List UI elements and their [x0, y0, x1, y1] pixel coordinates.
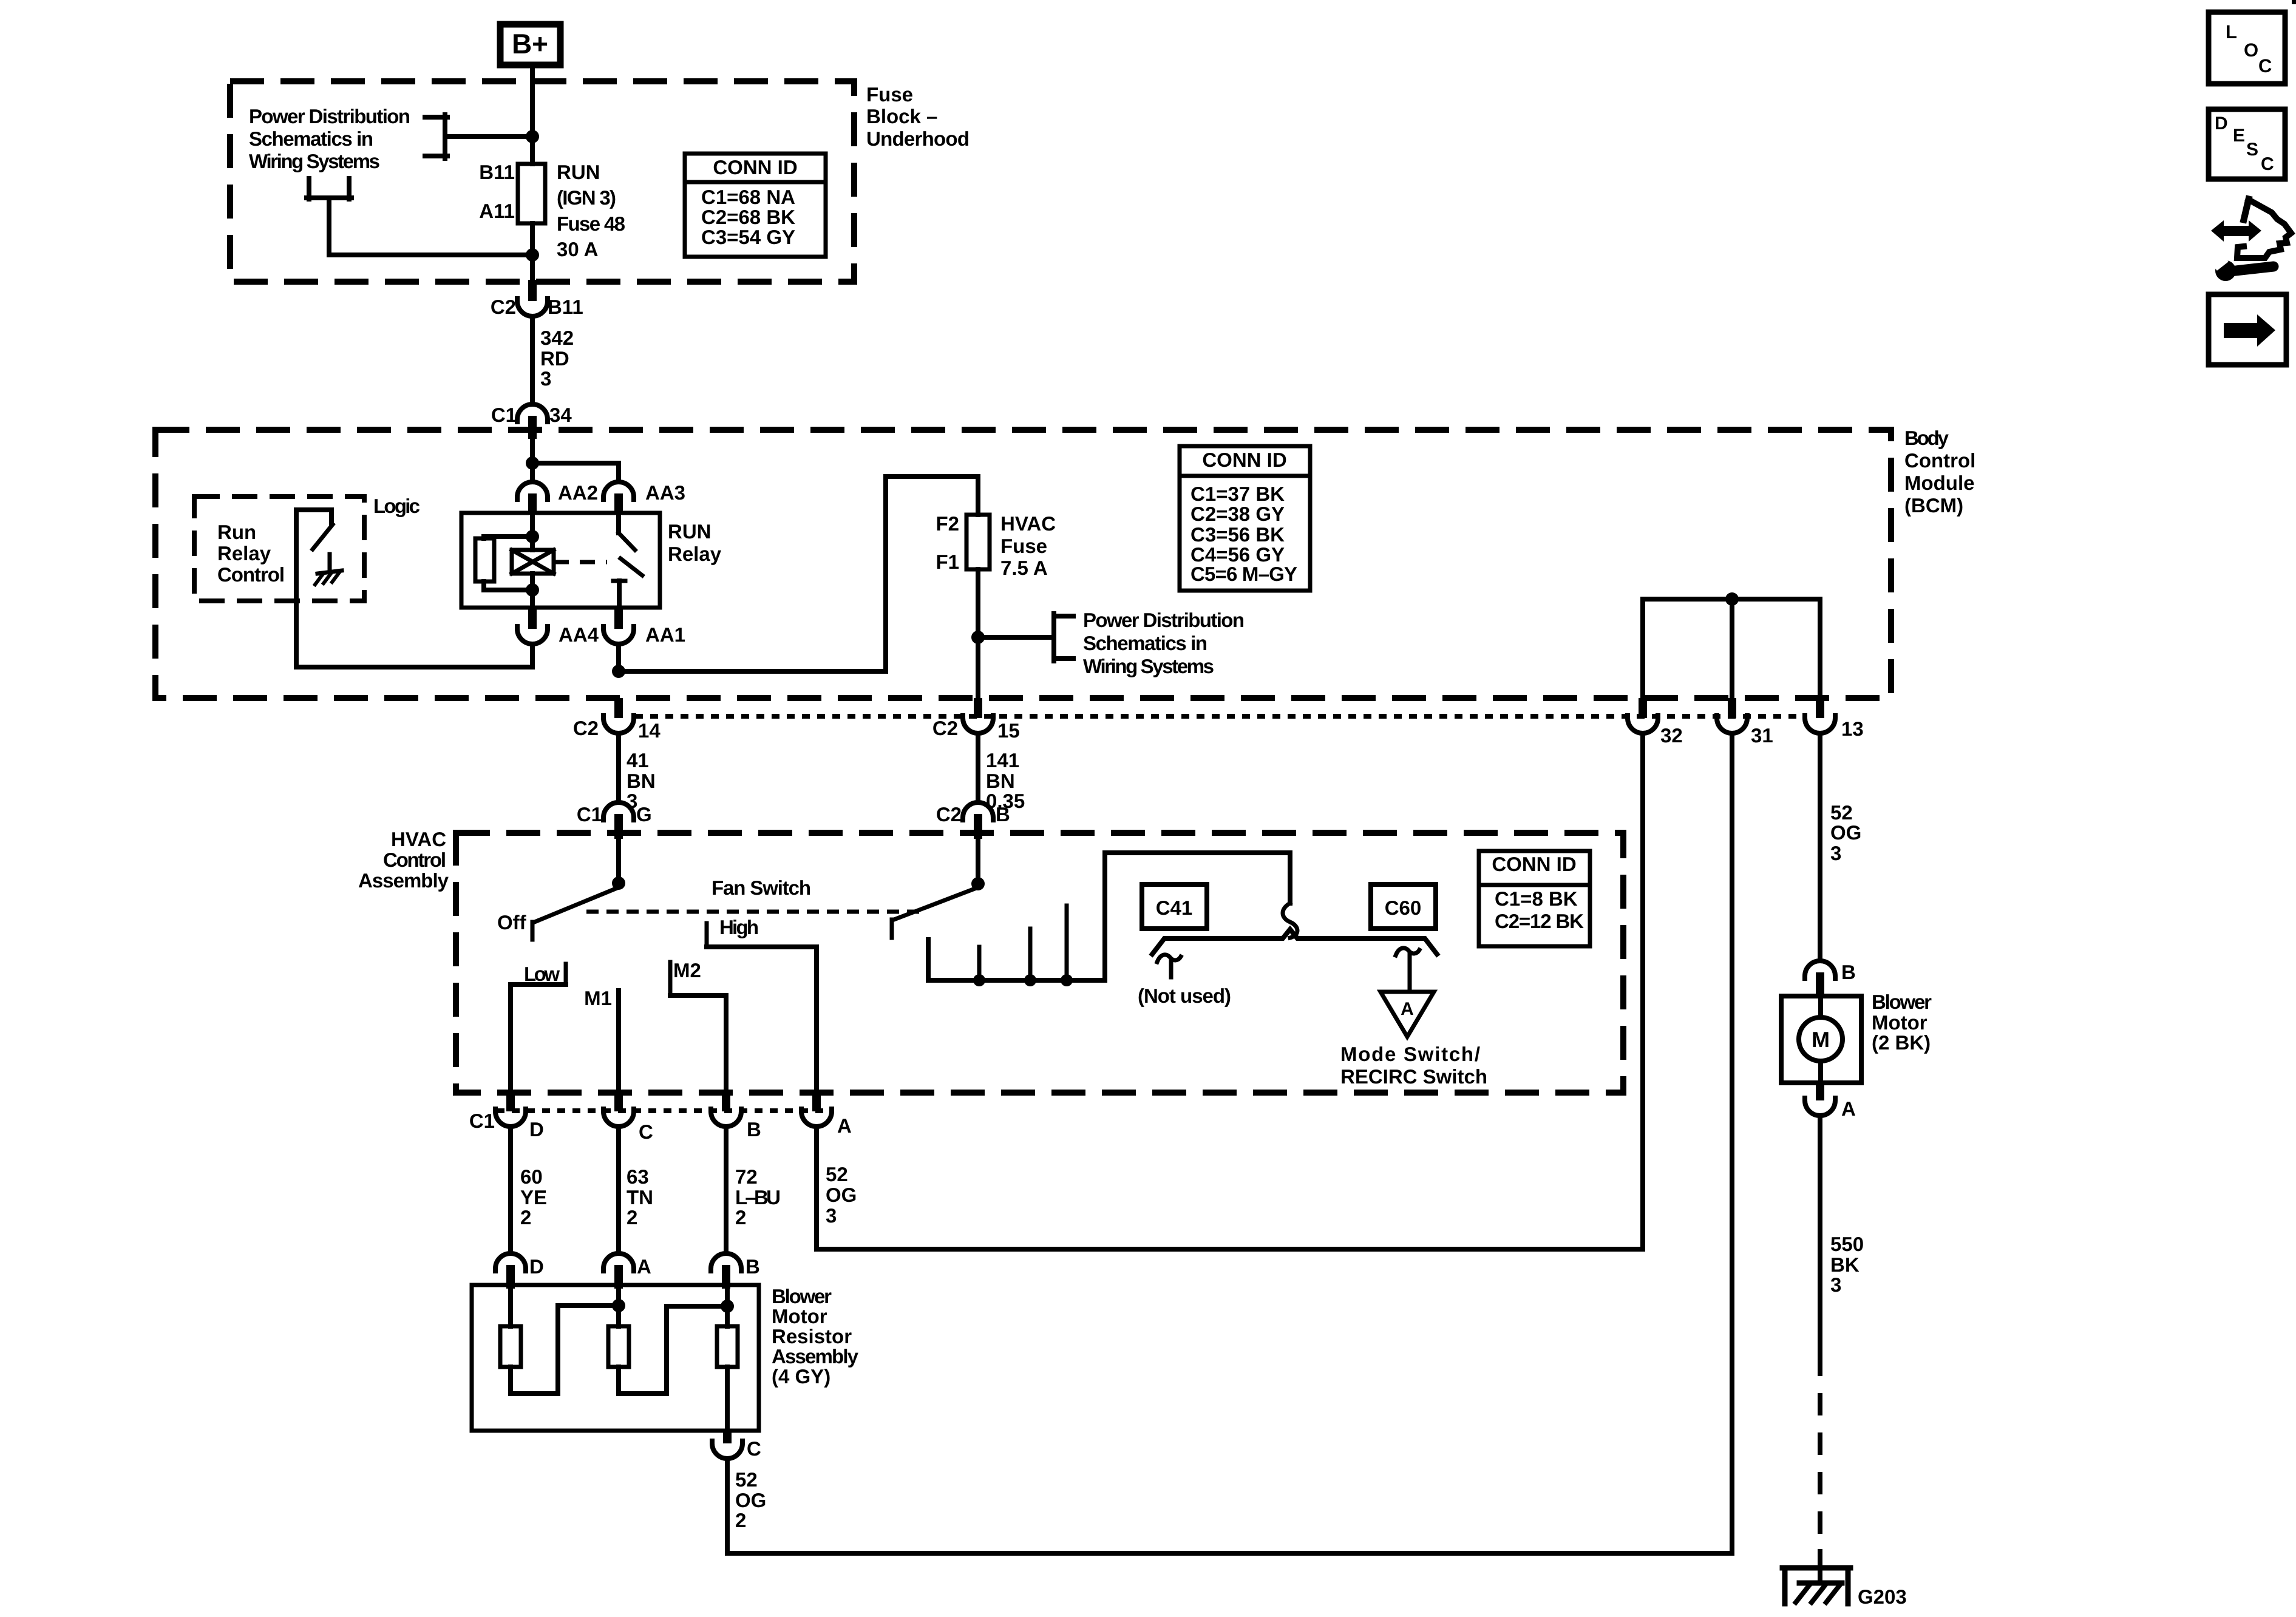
- chassis ground in logic: [315, 571, 342, 585]
- svg-text:Run: Run: [217, 521, 256, 543]
- svg-text:30 A: 30 A: [557, 238, 598, 260]
- logic ground stub: [328, 554, 332, 571]
- wire fan switch pole 2: [976, 839, 980, 884]
- blower motor resistor assembly box: [472, 1285, 759, 1431]
- svg-text:Control: Control: [1904, 449, 1975, 472]
- svg-text:(IGN 3): (IGN 3): [557, 186, 616, 209]
- wire B to resistor 3: [725, 1289, 730, 1326]
- logic switch blade: [313, 524, 333, 549]
- svg-text:342: 342: [540, 327, 574, 349]
- svg-text:Control: Control: [217, 563, 285, 586]
- connector AA2: [517, 481, 598, 514]
- svg-text:Power Distribution: Power Distribution: [1083, 609, 1245, 631]
- svg-text:Wiring Systems: Wiring Systems: [249, 150, 380, 172]
- node junction relay coil bottom: [526, 583, 539, 597]
- svg-text:14: 14: [638, 719, 661, 742]
- node junction resistor B: [721, 1300, 734, 1313]
- svg-text:C3=54 GY: C3=54 GY: [701, 226, 795, 248]
- icon box DESC: [2209, 109, 2285, 179]
- label Fuse Block - Underhood: [866, 83, 970, 150]
- wire 41 BN 3: [619, 733, 656, 812]
- svg-text:OG: OG: [826, 1184, 857, 1206]
- svg-text:C41: C41: [1156, 897, 1193, 919]
- svg-text:Module: Module: [1904, 472, 1974, 494]
- connector AA1: [603, 608, 685, 646]
- svg-text:M1: M1: [584, 987, 612, 1009]
- svg-text:Off: Off: [497, 911, 527, 934]
- svg-text:Blower: Blower: [772, 1285, 832, 1307]
- wire D to resistor 1: [508, 1289, 513, 1326]
- ground G203: [1782, 1568, 1907, 1608]
- HVAC control assembly dashed box: [456, 833, 1623, 1093]
- connector pin A (blower motor): [1805, 1083, 1856, 1120]
- svg-text:C60: C60: [1385, 897, 1422, 919]
- wire to power distribution reference: [978, 635, 1054, 640]
- svg-text:Blower: Blower: [1872, 991, 1932, 1013]
- svg-text:15: 15: [997, 719, 1020, 742]
- svg-text:YE: YE: [520, 1186, 547, 1209]
- wire fan switch pole 1: [616, 839, 621, 883]
- connector C1 pin 34: [491, 404, 572, 439]
- relay coil element: [512, 550, 554, 574]
- wire AA1 junction to fuse F2: [619, 476, 978, 671]
- svg-text:60: 60: [520, 1165, 543, 1188]
- connector pin C (resistor out): [712, 1431, 761, 1460]
- resistor R1: [500, 1326, 521, 1367]
- node junction relay coil top: [526, 530, 539, 543]
- fan switch mechanical linkage dotted: [586, 910, 922, 914]
- label RUN Relay: [668, 520, 722, 565]
- label Mode Switch RECIRC Switch: [1340, 1043, 1487, 1088]
- label F1: [936, 551, 959, 573]
- svg-text:32: 32: [1660, 724, 1683, 747]
- svg-text:41: 41: [627, 749, 649, 771]
- svg-text:C3=56 BK: C3=56 BK: [1190, 523, 1285, 546]
- svg-text:Fuse: Fuse: [1000, 535, 1047, 557]
- wire branch to AA3: [532, 463, 619, 482]
- wire 550 BK 3: [1820, 1116, 1864, 1354]
- fan switch pole 2 contact: [890, 920, 894, 938]
- svg-text:B: B: [996, 803, 1010, 825]
- svg-text:(2 BK): (2 BK): [1872, 1031, 1931, 1054]
- svg-text:RUN: RUN: [668, 520, 712, 543]
- svg-text:O: O: [2244, 39, 2258, 61]
- mode switch triangle A: [1381, 992, 1434, 1037]
- svg-text:C2: C2: [491, 296, 516, 318]
- wire fuse F1 down: [976, 569, 980, 700]
- svg-text:Fuse 48: Fuse 48: [557, 212, 625, 235]
- svg-text:D: D: [529, 1118, 544, 1141]
- svg-text:C1: C1: [469, 1110, 495, 1132]
- relay switch output terminal: [613, 581, 625, 608]
- svg-text:3: 3: [1830, 842, 1841, 864]
- connector pin A (resistor): [603, 1253, 651, 1289]
- svg-text:C2: C2: [936, 803, 962, 825]
- svg-text:M2: M2: [673, 959, 701, 981]
- svg-text:C2=12 BK: C2=12 BK: [1495, 910, 1584, 932]
- node junction fan switch pole 2: [971, 877, 985, 890]
- wire M2 to pin B: [724, 995, 729, 1093]
- label HVAC Control Assembly: [358, 828, 449, 892]
- svg-text:Wiring Systems: Wiring Systems: [1083, 655, 1214, 677]
- svg-text:2: 2: [520, 1206, 531, 1229]
- label HVAC Fuse 7.5 A: [1000, 512, 1056, 579]
- node junction comb 1: [973, 974, 985, 986]
- logic switch fixed contact: [296, 510, 331, 524]
- svg-text:2: 2: [735, 1206, 746, 1229]
- svg-text:TN: TN: [627, 1186, 653, 1209]
- svg-text:A: A: [1841, 1097, 1856, 1120]
- label RUN (IGN 3) Fuse 48 30 A: [557, 161, 625, 260]
- svg-text:A: A: [637, 1255, 651, 1278]
- svg-text:AA3: AA3: [645, 481, 685, 504]
- svg-text:3: 3: [826, 1204, 837, 1227]
- svg-text:D: D: [529, 1255, 544, 1278]
- resistor R2: [608, 1326, 629, 1367]
- svg-text:31: 31: [1751, 724, 1773, 747]
- svg-text:G: G: [636, 803, 652, 825]
- fan switch M1 contact: [584, 987, 619, 1093]
- svg-text:Assembly: Assembly: [772, 1345, 859, 1368]
- svg-text:Assembly: Assembly: [358, 869, 449, 892]
- relay switch blade: [620, 558, 642, 575]
- wire B+ down into fuse block: [530, 68, 535, 164]
- svg-text:RECIRC Switch: RECIRC Switch: [1340, 1065, 1487, 1088]
- fuse 48 RUN (IGN 3) 30 A: [518, 164, 545, 223]
- svg-text:Power Distribution: Power Distribution: [249, 105, 410, 127]
- connector pin B (HVAC): [711, 1093, 761, 1141]
- svg-text:7.5 A: 7.5 A: [1000, 557, 1048, 579]
- connector pin 31: [1717, 698, 1773, 747]
- svg-text:Schematics in: Schematics in: [1083, 632, 1207, 654]
- label Power Distribution Schematics in Wiring Systems (BCM): [1083, 609, 1245, 677]
- label Power Distribution Schematics in Wiring Systems (fuse block): [249, 105, 410, 172]
- svg-text:Body: Body: [1904, 427, 1949, 449]
- svg-text:13: 13: [1841, 717, 1864, 740]
- svg-text:(Not used): (Not used): [1138, 985, 1231, 1007]
- svg-text:B11: B11: [479, 161, 515, 183]
- svg-text:C: C: [2261, 154, 2274, 174]
- svg-text:C1: C1: [491, 404, 517, 426]
- svg-text:Resistor: Resistor: [772, 1325, 852, 1347]
- svg-text:63: 63: [627, 1165, 649, 1188]
- svg-text:C: C: [747, 1437, 761, 1460]
- relay actuator dashed link: [554, 560, 607, 564]
- fan switch High contact: [707, 916, 817, 947]
- wire 60 YE 2: [511, 1127, 547, 1253]
- in-line connector bus line: [1152, 929, 1437, 954]
- svg-text:52: 52: [1830, 801, 1853, 824]
- svg-text:AA2: AA2: [558, 481, 598, 504]
- connector pin D (HVAC): [495, 1093, 544, 1141]
- connector C1 label: [469, 1110, 495, 1132]
- svg-text:B: B: [746, 1255, 760, 1278]
- svg-text:B: B: [1841, 961, 1856, 983]
- fuse block dashed box: [230, 81, 854, 282]
- svg-text:S: S: [2246, 140, 2258, 160]
- svg-text:D: D: [2215, 114, 2228, 134]
- label Logic: [373, 495, 420, 517]
- fan switch blade pole 1: [533, 887, 619, 923]
- svg-text:C5=6 M–GY: C5=6 M–GY: [1190, 563, 1297, 585]
- in-line harness break squiggle: [1283, 903, 1297, 938]
- wire 52 OG 2: [727, 733, 1732, 1553]
- svg-text:BN: BN: [986, 770, 1015, 792]
- svg-text:(4 GY): (4 GY): [772, 1365, 830, 1388]
- wire 63 TN 2: [619, 1127, 653, 1253]
- wire resistor 3 to output: [725, 1367, 730, 1431]
- relay coil wire: [530, 513, 535, 608]
- svg-text:Fuse: Fuse: [866, 83, 913, 106]
- fan switch blade pole 2: [892, 887, 978, 920]
- label B11 pin: [479, 161, 515, 183]
- icon box arrow right: [2209, 294, 2286, 365]
- svg-text:34: 34: [549, 404, 572, 426]
- wire 52 OG 3 from pin 13: [1820, 733, 1861, 961]
- connector pin 32: [1628, 698, 1683, 747]
- svg-text:C: C: [2258, 55, 2272, 76]
- not used terminal squiggle: [1157, 955, 1181, 977]
- svg-text:2: 2: [627, 1206, 637, 1229]
- node junction on B+ feed (upper): [526, 130, 539, 143]
- connector C41 box: [1142, 884, 1207, 929]
- svg-text:A11: A11: [479, 200, 515, 222]
- svg-text:Block –: Block –: [866, 105, 937, 127]
- svg-text:C1: C1: [577, 803, 602, 825]
- svg-text:C1=37 BK: C1=37 BK: [1190, 483, 1285, 505]
- svg-text:C2: C2: [932, 717, 958, 739]
- wire resistor 1 jog: [511, 1306, 619, 1394]
- svg-text:Motor: Motor: [1872, 1011, 1927, 1034]
- svg-text:2: 2: [735, 1509, 746, 1531]
- svg-text:AA4: AA4: [559, 623, 599, 646]
- node junction resistor A: [612, 1299, 625, 1312]
- fan switch Off contact: [497, 911, 532, 940]
- svg-text:3: 3: [1830, 1273, 1841, 1296]
- svg-text:A: A: [837, 1114, 852, 1137]
- svg-text:BN: BN: [627, 770, 656, 792]
- wire 141 BN 0.35: [978, 733, 1025, 812]
- label (Not used): [1138, 985, 1231, 1007]
- svg-text:B: B: [747, 1118, 761, 1141]
- icon vehicle direction with wrench: [2211, 199, 2291, 281]
- page edge mark: [2292, 0, 2296, 4]
- Body Control Module dashed box: [155, 430, 1891, 698]
- svg-text:Underhood: Underhood: [866, 127, 970, 150]
- CONN ID table (BCM): [1180, 446, 1310, 591]
- svg-text:G203: G203: [1858, 1585, 1907, 1608]
- node junction comb 3: [1061, 974, 1073, 986]
- svg-text:C1=8 BK: C1=8 BK: [1495, 887, 1578, 910]
- wire 72 L-BU 2: [726, 1127, 781, 1253]
- svg-text:Logic: Logic: [373, 495, 420, 517]
- svg-text:B+: B+: [512, 28, 548, 59]
- svg-text:F2: F2: [936, 512, 959, 535]
- svg-text:L: L: [2226, 21, 2237, 42]
- wire 52 OG 3 (fan high): [817, 733, 1643, 1249]
- svg-text:RUN: RUN: [557, 161, 600, 183]
- connector pin 13: [1805, 698, 1864, 740]
- battery positive junction B+: [500, 24, 560, 65]
- connector row dotted line (BCM C2): [635, 714, 1804, 719]
- svg-text:High: High: [719, 916, 759, 938]
- CONN ID table (HVAC): [1479, 851, 1590, 946]
- node junction below fuse A11: [526, 248, 539, 262]
- svg-text:Motor: Motor: [772, 1305, 827, 1327]
- svg-text:C2: C2: [573, 717, 599, 739]
- svg-text:OG: OG: [735, 1489, 766, 1511]
- connector pin B (blower motor): [1805, 961, 1856, 996]
- svg-text:Low: Low: [524, 963, 560, 985]
- svg-text:AA1: AA1: [645, 623, 685, 646]
- svg-text:3: 3: [540, 367, 551, 390]
- wire AA1 to HVAC fuse: [616, 644, 621, 671]
- connector C2 pin B11: [491, 280, 583, 318]
- label Body Control Module (BCM): [1904, 427, 1975, 517]
- svg-text:HVAC: HVAC: [1000, 512, 1056, 535]
- svg-text:Fan Switch: Fan Switch: [712, 876, 811, 899]
- connector C2 pin 14: [573, 698, 661, 742]
- blower motor M: [1781, 996, 1861, 1083]
- svg-text:M: M: [1812, 1027, 1830, 1052]
- connector pin C (HVAC): [603, 1093, 653, 1143]
- resistor R3: [717, 1326, 738, 1367]
- fan switch M2 contact: [670, 959, 726, 995]
- svg-text:HVAC: HVAC: [391, 828, 446, 850]
- wire into BCM to relay: [530, 439, 535, 482]
- wire High to pin A: [814, 947, 819, 1093]
- logic dashed box: [194, 497, 364, 601]
- node junction AA1 output: [612, 665, 625, 678]
- svg-text:Mode Switch/: Mode Switch/: [1340, 1043, 1480, 1065]
- svg-text:Relay: Relay: [217, 542, 271, 564]
- svg-text:52: 52: [826, 1163, 848, 1185]
- svg-text:C1=68 NA: C1=68 NA: [701, 186, 795, 208]
- off-page reference bracket (BCM): [1054, 614, 1073, 661]
- icon box LOC: [2209, 12, 2285, 84]
- connector C60 box: [1371, 884, 1436, 929]
- wire resistor 2 jog: [619, 1306, 727, 1394]
- svg-text:(BCM): (BCM): [1904, 494, 1963, 517]
- wire fuse to box edge: [530, 223, 535, 282]
- svg-text:Control: Control: [383, 849, 446, 871]
- fan switch Low contact: [511, 963, 566, 985]
- CONN ID table (fuse block): [685, 154, 826, 257]
- mode switch terminal squiggle: [1396, 948, 1419, 990]
- relay switch fixed contact: [619, 513, 635, 550]
- svg-text:CONN ID: CONN ID: [1492, 853, 1576, 875]
- svg-text:L–BU: L–BU: [735, 1186, 781, 1209]
- node junction feeding AA3: [526, 456, 539, 470]
- svg-text:550: 550: [1830, 1233, 1864, 1255]
- label Blower Motor (2 BK): [1872, 991, 1932, 1054]
- label Fan Switch: [712, 876, 811, 899]
- svg-text:F1: F1: [936, 551, 959, 573]
- connector AA3: [603, 481, 685, 514]
- svg-text:A: A: [1401, 999, 1414, 1019]
- connector C1 pin G: [577, 802, 652, 839]
- svg-text:RD: RD: [540, 347, 569, 370]
- label Blower Motor Resistor Assembly (4 GY): [772, 1285, 859, 1388]
- svg-text:C: C: [639, 1120, 653, 1143]
- svg-text:OG: OG: [1830, 821, 1861, 844]
- svg-text:52: 52: [735, 1468, 758, 1491]
- off-page continuation marker (lower): [307, 178, 532, 255]
- svg-text:C2=38 GY: C2=38 GY: [1190, 503, 1285, 525]
- node junction below HVAC fuse: [971, 631, 985, 644]
- svg-text:CONN ID: CONN ID: [1202, 449, 1286, 471]
- connector row dotted line (HVAC C1): [497, 1108, 833, 1113]
- svg-text:141: 141: [986, 749, 1019, 771]
- svg-text:B11: B11: [548, 296, 583, 318]
- RUN relay box: [461, 513, 660, 608]
- node junction fan switch pole 1: [612, 876, 625, 890]
- wire Low to pin D: [508, 985, 513, 1093]
- connector C2 pin B: [936, 802, 1010, 839]
- svg-text:CONN ID: CONN ID: [713, 156, 797, 178]
- wire AA4 to run relay control logic: [296, 510, 532, 667]
- node junction BCM bus: [1725, 592, 1739, 606]
- connector C2 pin 15: [932, 698, 1020, 742]
- connector pin B (resistor): [711, 1253, 760, 1289]
- connector pin D (resistor): [495, 1253, 544, 1289]
- mode switch unused contact comb: [928, 853, 1290, 980]
- label A11 pin: [479, 200, 515, 222]
- svg-text:Relay: Relay: [668, 543, 722, 565]
- connector pin A (HVAC): [801, 1093, 852, 1137]
- node junction comb 2: [1024, 974, 1036, 986]
- svg-text:72: 72: [735, 1165, 758, 1188]
- HVAC fuse 7.5 A: [966, 515, 990, 569]
- wire 550 BK 3 dashed to ground: [1818, 1354, 1822, 1583]
- BCM internal output bus: [1643, 599, 1820, 700]
- svg-text:C2=68 BK: C2=68 BK: [701, 206, 795, 228]
- relay coil suppression resistor: [475, 537, 532, 590]
- svg-text:Schematics in: Schematics in: [249, 127, 373, 150]
- label F2: [936, 512, 959, 535]
- wire A to resistor 2: [616, 1289, 621, 1326]
- svg-text:E: E: [2233, 126, 2245, 146]
- connector AA4: [517, 608, 599, 646]
- label Run Relay Control: [217, 521, 285, 586]
- svg-text:BK: BK: [1830, 1253, 1860, 1276]
- wire 342 RD 3: [532, 316, 574, 404]
- off-page reference bracket to Power Distribution (upper): [425, 115, 532, 158]
